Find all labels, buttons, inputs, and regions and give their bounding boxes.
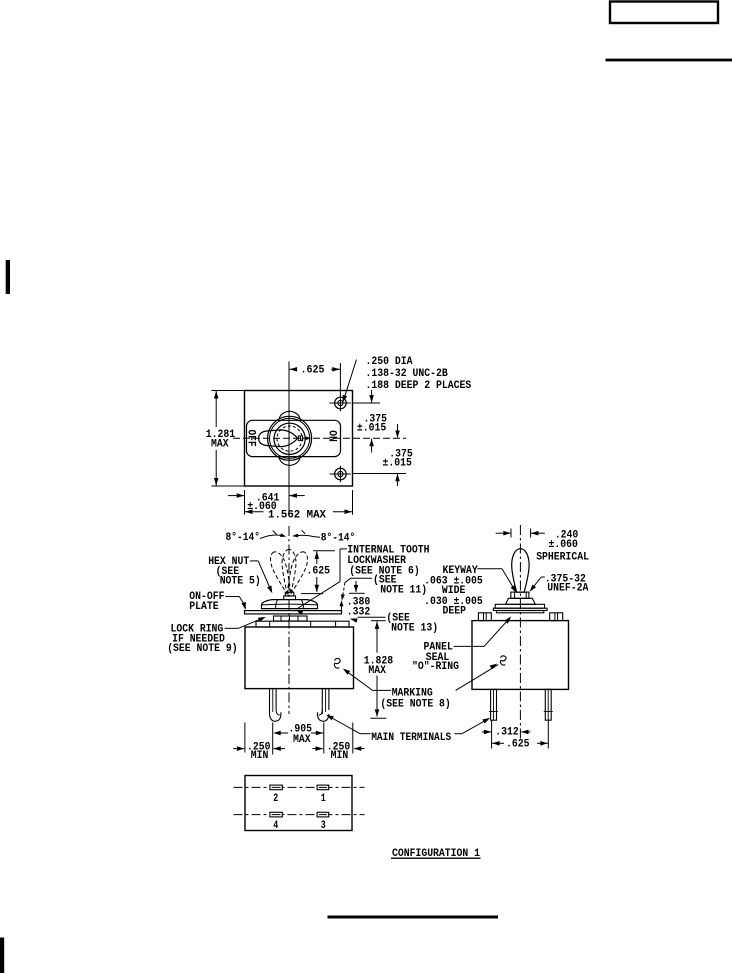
- svg-text:.625: .625: [506, 739, 530, 751]
- svg-text:DEEP: DEEP: [443, 606, 467, 618]
- svg-text:4: 4: [273, 820, 278, 832]
- svg-text:"O"-RING: "O"-RING: [412, 661, 459, 673]
- svg-text:2: 2: [273, 793, 278, 805]
- svg-text:SPHERICAL: SPHERICAL: [536, 551, 589, 563]
- svg-text:MAX: MAX: [211, 439, 229, 451]
- svg-text:UNEF-2A: UNEF-2A: [547, 583, 588, 595]
- svg-text:(SEE NOTE 9): (SEE NOTE 9): [167, 643, 237, 655]
- svg-text:±.015: ±.015: [383, 458, 413, 470]
- svg-text:.625: .625: [307, 566, 331, 578]
- svg-text:3: 3: [321, 820, 326, 832]
- svg-text:NOTE 5): NOTE 5): [220, 576, 261, 588]
- svg-text:±.015: ±.015: [357, 423, 387, 435]
- svg-text:(SEE NOTE 8): (SEE NOTE 8): [380, 699, 450, 711]
- svg-text:8°-14°: 8°-14°: [321, 532, 356, 544]
- svg-text:MIN: MIN: [331, 750, 349, 762]
- svg-text:.312: .312: [495, 727, 519, 739]
- svg-text:1.562 MAX: 1.562 MAX: [268, 510, 326, 522]
- svg-text:.138-32 UNC-2B: .138-32 UNC-2B: [366, 368, 449, 380]
- svg-text:PLATE: PLATE: [189, 601, 219, 613]
- svg-text:MIN: MIN: [251, 750, 269, 762]
- svg-text:MAX: MAX: [368, 665, 386, 677]
- svg-text:±.060: ±.060: [549, 539, 578, 551]
- svg-text:.625: .625: [301, 365, 325, 377]
- svg-text:NOTE 13): NOTE 13): [391, 622, 438, 634]
- svg-text:.250 DIA: .250 DIA: [366, 356, 413, 368]
- svg-text:.188 DEEP 2 PLACES: .188 DEEP 2 PLACES: [366, 380, 472, 392]
- svg-text:8°-14°: 8°-14°: [226, 532, 261, 544]
- svg-text:NOTE 11): NOTE 11): [380, 585, 427, 597]
- svg-text:ON: ON: [325, 430, 337, 442]
- svg-text:OFF: OFF: [244, 430, 256, 447]
- svg-text:MAIN TERMINALS: MAIN TERMINALS: [371, 732, 451, 744]
- svg-text:MAX: MAX: [293, 734, 311, 746]
- svg-text:1: 1: [321, 793, 326, 805]
